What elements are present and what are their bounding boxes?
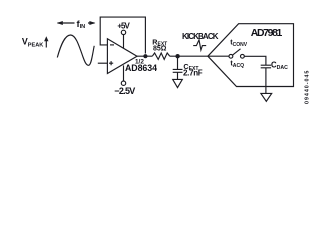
svg-text:09440-045: 09440-045 (305, 70, 311, 104)
svg-text:AD8634: AD8634 (125, 63, 157, 73)
svg-text:+5V: +5V (117, 22, 130, 31)
svg-text:2.7nF: 2.7nF (183, 69, 203, 78)
svg-text:AD7981: AD7981 (251, 28, 283, 39)
svg-text:−2.5V: −2.5V (114, 86, 135, 96)
svg-text:KICKBACK: KICKBACK (182, 32, 219, 41)
svg-text:85Ω: 85Ω (153, 46, 167, 53)
